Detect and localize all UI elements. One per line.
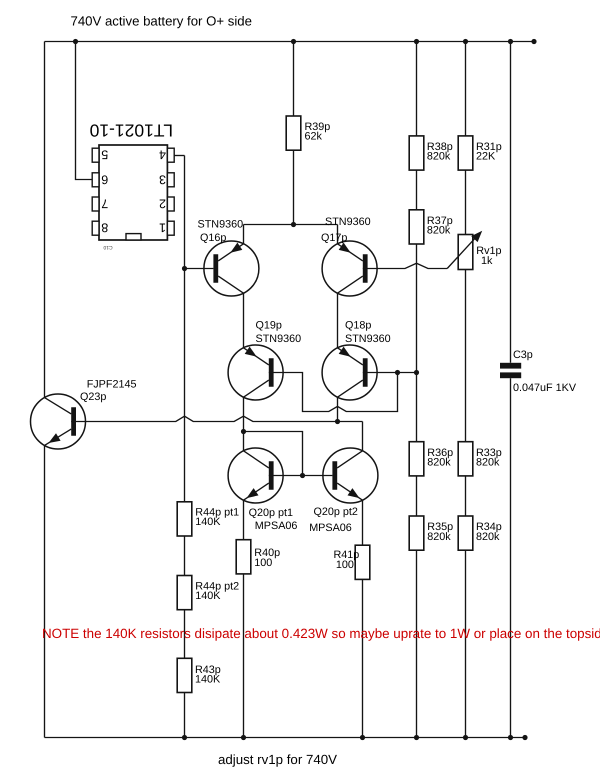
wire bottom return rail [45, 737, 526, 739]
svg-text:Q20p pt1: Q20p pt1 [249, 507, 293, 519]
svg-text:FJPF2145: FJPF2145 [87, 379, 137, 391]
resistor R31p [458, 136, 473, 170]
svg-text:NOTE the 140K resistors disipa: NOTE the 140K resistors disipate about 0… [42, 626, 600, 641]
svg-text:820k: 820k [427, 151, 451, 163]
svg-text:MPSA06: MPSA06 [309, 522, 352, 534]
svg-text:C10: C10 [103, 244, 112, 250]
transistor Q20p pt1 MPSA06 (NPN, mirrored) [228, 448, 283, 503]
wire Q17p base with hop over R37 column [363, 263, 447, 268]
wire left rail lower [44, 445, 46, 737]
wire Q23p base bus with hops [71, 416, 362, 421]
svg-text:140K: 140K [195, 673, 221, 685]
wire top rail to R39p [293, 42, 295, 117]
svg-text:100: 100 [336, 559, 354, 571]
wire R37p down to R36p (past hop, base node) [416, 244, 418, 442]
svg-text:7: 7 [101, 197, 108, 211]
svg-text:Q16p: Q16p [200, 232, 226, 244]
wire R44p pt1 to pt2 [184, 536, 186, 576]
wire Q17p emitter down [337, 225, 339, 244]
svg-text:STN9360: STN9360 [325, 216, 371, 228]
resistor R35p [409, 516, 424, 550]
svg-text:1: 1 [159, 221, 166, 235]
svg-text:820k: 820k [427, 531, 451, 543]
svg-text:adjust rv1p for 740V: adjust rv1p for 740V [218, 752, 337, 767]
wire R41p to bottom rail [362, 579, 364, 737]
wire Q20p pt2 base [303, 475, 333, 477]
wire Q17p collector down to Q18p [337, 293, 339, 348]
wire R33p to R34p [465, 476, 467, 516]
wire Q20p pt1 emitter down to R40p [243, 500, 245, 540]
node Q20p bases junction [300, 473, 305, 478]
svg-text:140K: 140K [195, 516, 221, 528]
svg-text:62k: 62k [305, 131, 323, 143]
svg-text:4: 4 [159, 148, 166, 162]
wire R38p to R37p [416, 170, 418, 210]
transistor Q23p FJPF2145 (NPN-style, mirrored) [31, 394, 86, 449]
node Q18p collector on bus [335, 419, 340, 424]
wire top supply rail [45, 41, 535, 43]
wire Q19p collector down [243, 397, 245, 431]
node top rail / R31p column [463, 39, 468, 44]
node Q19p collector junction [241, 429, 246, 434]
wire from U1 pin 4 to node column [174, 155, 184, 157]
wire collector node to base column [244, 432, 303, 476]
resistor R44p pt2 [177, 576, 192, 610]
transistor Q17p STN9360 (PNP, mirrored) [322, 241, 377, 296]
transistor Q18p STN9360 (PNP, mirrored) [322, 345, 377, 400]
svg-text:0.047uF 1KV: 0.047uF 1KV [513, 382, 577, 394]
svg-text:22K: 22K [476, 151, 496, 163]
resistor R34p [458, 516, 473, 550]
svg-text:Q18p: Q18p [345, 320, 371, 332]
svg-text:820k: 820k [476, 531, 500, 543]
node top rail / R39p [291, 39, 296, 44]
wire R34p to bottom rail [465, 550, 467, 737]
svg-text:Q19p: Q19p [256, 320, 282, 332]
resistor R33p [458, 442, 473, 476]
wire R36p to R35p [416, 476, 418, 516]
svg-text:740V active battery for O+ sid: 740V active battery for O+ side [71, 13, 252, 28]
svg-text:Q17p: Q17p [321, 232, 347, 244]
svg-text:2: 2 [159, 197, 166, 211]
wire Rv1p to R33p [465, 270, 467, 442]
node A junction dot [291, 222, 296, 227]
node Q18p base tie [395, 370, 400, 375]
wire top rail to R31p [465, 42, 467, 136]
wire pin-4 column down to R44p [184, 156, 186, 502]
svg-text:STN9360: STN9360 [345, 333, 391, 345]
wire Q18p collector down to bus [337, 397, 339, 421]
svg-text:1k: 1k [481, 255, 493, 267]
svg-text:STN9360: STN9360 [256, 333, 302, 345]
svg-text:8: 8 [101, 221, 108, 235]
wire Q19p base jog to Q18p base [269, 373, 398, 412]
svg-text:100: 100 [254, 557, 272, 569]
resistor R39p [286, 116, 301, 150]
transistor Q19p STN9360 (PNP, mirrored) [228, 345, 283, 400]
Rv1p wiper arrow [447, 234, 479, 268]
svg-text:Q20p pt2: Q20p pt2 [314, 506, 358, 518]
svg-text:Q23p: Q23p [80, 391, 106, 403]
wire left rail upper [44, 42, 46, 398]
node on top rail at pin-6 feed [73, 39, 78, 44]
resistor R37p [409, 210, 424, 244]
wire top rail to R38p [416, 42, 418, 136]
node top rail / R38p column [414, 39, 419, 44]
svg-text:STN9360: STN9360 [198, 219, 244, 231]
wire from top rail to U1 pin 6 [76, 42, 93, 180]
svg-text:5: 5 [101, 148, 108, 162]
op-amp U1 LT1021-10 body (rotated 180) [99, 145, 167, 240]
svg-text:140K: 140K [195, 590, 221, 602]
svg-text:6: 6 [101, 172, 108, 186]
transistor Q16p STN9360 (PNP) [204, 241, 259, 296]
wire C3p to bottom rail [510, 378, 512, 737]
node bottom rail dots [182, 735, 187, 740]
resistor R43p [177, 658, 192, 692]
wire Q16p emitter up [243, 225, 245, 244]
resistor R40p [236, 540, 251, 574]
wire node A horizontal (Q16 emitter to Q17 emitter) [244, 224, 338, 226]
wire Q19p collector to Q20p pt1 [243, 432, 245, 452]
node Q18p base / R37-R36 column [414, 370, 419, 375]
wire Q20p pt2 emitter down to R41p [362, 500, 364, 545]
wire R31p to Rv1p [465, 170, 467, 234]
svg-text:C3p: C3p [513, 349, 533, 361]
wire R44p pt2 to R43p [184, 610, 186, 659]
wire bus down to Q20p pt2 collector [362, 422, 364, 452]
potentiometer Rv1p body [458, 235, 473, 270]
resistor R36p [409, 442, 424, 476]
node Q16p base junction [182, 266, 187, 271]
capacitor C3p [500, 363, 521, 369]
svg-text:820k: 820k [427, 457, 451, 469]
wire Q20p pt1 base [269, 475, 303, 477]
node top rail output terminal [531, 39, 536, 44]
wire top rail to C3p [510, 42, 512, 363]
svg-text:3: 3 [159, 172, 166, 186]
wire Q18p base to R-column [363, 372, 417, 374]
resistor R38p [409, 136, 424, 170]
svg-text:820k: 820k [427, 224, 451, 236]
wire Q16p base [185, 268, 214, 270]
wire R43p to bottom rail [184, 693, 186, 738]
wire R40p to bottom rail [243, 574, 245, 738]
wire R35p to bottom rail [416, 550, 418, 737]
resistor R44p pt1 [177, 502, 192, 536]
transistor Q20p pt2 MPSA06 (NPN) [323, 448, 378, 503]
svg-text:LT1021-10: LT1021-10 [89, 121, 173, 141]
resistor R41p [355, 545, 370, 579]
svg-text:820k: 820k [476, 457, 500, 469]
svg-text:MPSA06: MPSA06 [255, 520, 298, 532]
wire Q16p collector down to Q19p [243, 293, 245, 348]
node top rail / C3p column [508, 39, 513, 44]
wire R39p to node A [293, 150, 295, 224]
